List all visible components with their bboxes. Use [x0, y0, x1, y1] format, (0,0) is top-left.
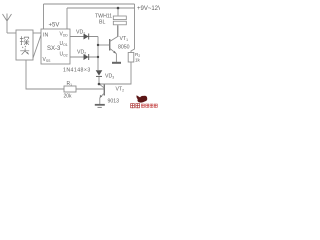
diode VD3 — [96, 70, 103, 84]
svg-text:1k: 1k — [135, 58, 141, 63]
wire antenna to probe box — [7, 32, 16, 34]
svg-text:R1: R1 — [67, 81, 73, 87]
diode VD1 — [84, 34, 89, 40]
wire probe bottom to base line — [26, 60, 64, 89]
node VD2/bus — [97, 56, 99, 58]
svg-text:20k: 20k — [64, 94, 73, 100]
+9V rail — [44, 3, 135, 5]
svg-text:UO1: UO1 — [60, 41, 68, 47]
node buzzer/rail — [117, 7, 120, 10]
wire probe to IN — [33, 32, 41, 34]
svg-text:BL: BL — [99, 19, 105, 25]
svg-text:VD1: VD1 — [76, 30, 85, 36]
wire buzzer to VT1 collector — [117, 25, 119, 37]
wire right rail down — [131, 4, 135, 53]
wire R2 bottom to node — [99, 62, 131, 84]
wire UO2 to VD2 — [70, 56, 98, 58]
ground VT2 — [95, 104, 105, 106]
wire VT1 emitter down — [115, 54, 117, 63]
wire diode bus — [97, 37, 99, 71]
node VD1/base — [97, 44, 99, 46]
svg-text:+9V~12V: +9V~12V — [137, 6, 160, 12]
svg-text:+5V: +5V — [49, 23, 60, 29]
ground VT1 — [112, 62, 121, 64]
wire right top pin up — [66, 8, 68, 29]
transistor Q2 VT2 9013 — [100, 84, 105, 98]
labels — [20, 6, 162, 105]
diode VD2 — [84, 54, 89, 60]
watermark text (drawn marks) — [131, 103, 140, 108]
svg-text:VT2: VT2 — [116, 87, 125, 93]
antenna — [3, 14, 12, 34]
wire R1 to VT2 base — [76, 88, 104, 90]
svg-text:VD3: VD3 — [105, 74, 114, 80]
wire base VT1 — [98, 44, 109, 46]
svg-text:VSS: VSS — [43, 57, 52, 63]
buzzer BL TWH11 — [113, 16, 126, 20]
probe box 探头 — [16, 30, 33, 60]
wire UO1 to VD1 — [70, 36, 98, 38]
wire VT2 emitter down — [99, 98, 101, 104]
wire VDD pin to +5V rail — [43, 4, 45, 29]
label 探头 (drawn strokes) — [20, 36, 29, 54]
+V rail inner — [67, 7, 135, 9]
svg-text:9013: 9013 — [108, 99, 120, 105]
buzzer BL stem top — [117, 8, 119, 16]
resistor R1 20k — [64, 86, 76, 92]
svg-text:8050: 8050 — [118, 45, 130, 51]
junction dots — [97, 7, 119, 86]
watermark logo — [136, 95, 147, 102]
svg-text:IN: IN — [43, 33, 48, 39]
IC U1 SX-3 box — [41, 29, 70, 64]
svg-text:VDD: VDD — [60, 32, 69, 38]
svg-text:VD2: VD2 — [77, 50, 86, 56]
wire diagonal probe to SX-3 — [33, 35, 41, 58]
wire VT1 collector up — [117, 25, 119, 37]
svg-text:UO2: UO2 — [60, 52, 68, 58]
svg-text:VT1: VT1 — [120, 36, 129, 42]
node VD3/R2/collector — [98, 83, 101, 86]
resistor R2 1k — [128, 53, 134, 63]
svg-text:1N4148×3: 1N4148×3 — [63, 68, 91, 74]
transistor Q1 VT1 8050 — [110, 37, 118, 54]
